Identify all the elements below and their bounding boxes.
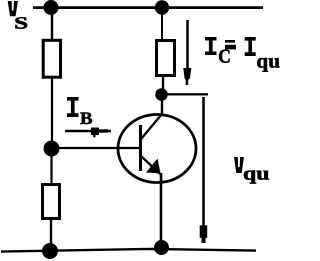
node collector junction dot: [155, 88, 168, 101]
wire top rail to R3: [161, 8, 163, 41]
wire top rail to R1: [51, 8, 53, 41]
resistor R2: [43, 185, 60, 219]
svg-text:S: S: [14, 14, 28, 33]
wire bottom rail: [1, 249, 256, 252]
wire base node to R2: [50, 148, 52, 185]
arrow I_C: [186, 20, 189, 68]
label I_B: [67, 97, 79, 117]
wire base: [52, 147, 140, 149]
node junction dot top-left: [44, 0, 59, 15]
node junction dot emitter-bottom: [154, 240, 169, 255]
wire top rail: [33, 6, 263, 9]
label V_S: [8, 1, 18, 16]
svg-text:B: B: [80, 108, 93, 128]
label I_C: [205, 37, 217, 55]
wire R2 to bottom rail: [50, 218, 52, 251]
transistor Q1 emitter lead: [141, 156, 160, 174]
resistor R3: [157, 41, 175, 76]
wire R1 to base node: [51, 78, 53, 148]
transistor Q1 circle: [118, 115, 196, 183]
svg-text:qu: qu: [256, 51, 280, 73]
label V_qu: [234, 157, 244, 173]
transistor Q1 emitter arrowhead: [146, 159, 161, 174]
wire R3 to collector node: [162, 75, 164, 94]
wire emitter to bottom rail: [160, 173, 163, 248]
wire collector node stub right: [161, 93, 208, 95]
resistor R1: [43, 40, 60, 77]
node base junction dot: [44, 141, 60, 157]
svg-text:qu: qu: [243, 163, 270, 184]
svg-text:C: C: [218, 47, 231, 68]
transistor Q1 collector lead: [141, 95, 162, 139]
node junction dot top-right: [155, 0, 169, 14]
arrow I_B: [65, 130, 111, 133]
transistor Q1 base bar: [139, 125, 142, 171]
label I_qu: [245, 37, 256, 56]
arrow V_qu: [202, 97, 205, 226]
approx equals sign: [225, 40, 235, 43]
node junction dot bottom-left: [42, 243, 58, 259]
